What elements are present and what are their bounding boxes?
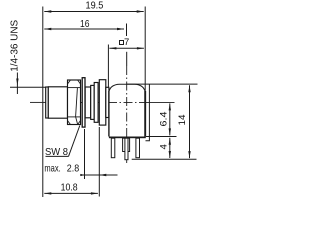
svg-text:14: 14 bbox=[177, 115, 188, 126]
svg-text:1/4-36 UNS: 1/4-36 UNS bbox=[10, 19, 21, 71]
svg-text:19.5: 19.5 bbox=[86, 1, 104, 12]
svg-text:max.: max. bbox=[44, 164, 60, 175]
svg-text:2.8: 2.8 bbox=[67, 164, 80, 175]
svg-text:4: 4 bbox=[158, 144, 169, 149]
svg-text:7: 7 bbox=[124, 37, 129, 48]
svg-text:6.4: 6.4 bbox=[158, 112, 169, 127]
svg-text:10.8: 10.8 bbox=[61, 183, 78, 194]
svg-text:16: 16 bbox=[80, 19, 90, 30]
svg-text:SW 8: SW 8 bbox=[45, 147, 68, 158]
